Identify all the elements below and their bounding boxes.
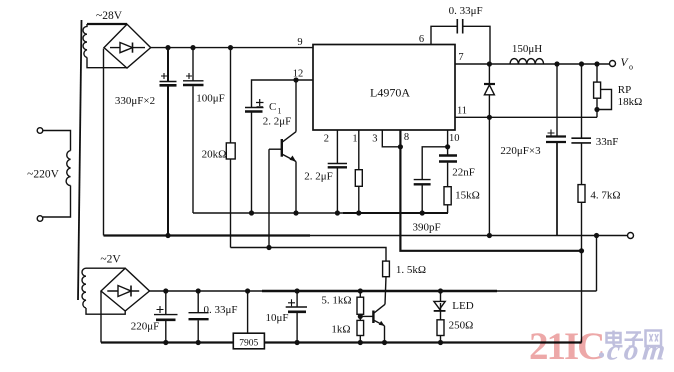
label pin 12 [293, 69, 304, 80]
wire power ground rail [104, 234, 628, 236]
label 2.2uF C1 [263, 116, 292, 128]
svg-text:C: C [269, 101, 276, 113]
svg-text:3: 3 [372, 134, 377, 145]
label pin 10 [449, 133, 460, 144]
transformer T1 secondary 2V winding [82, 268, 86, 308]
label 2.2uF pin2 [304, 171, 333, 183]
resistor pin1 [355, 130, 362, 213]
svg-text:0. 33μF: 0. 33μF [449, 5, 483, 17]
node junction pin1 res ground [356, 210, 361, 215]
label 4.7kOhm [590, 190, 620, 202]
label 150uH [512, 43, 542, 55]
label pin 6 [419, 34, 424, 45]
terminal Vo [610, 61, 616, 67]
wire base net A [231, 248, 387, 262]
node junction pin3 pin8 [398, 144, 403, 149]
label 10uF [265, 312, 288, 324]
node junction 330uF ground [165, 233, 170, 238]
node junction 220uF top [163, 288, 168, 293]
node junction 220uF bottom [163, 340, 168, 345]
diode LED [434, 291, 446, 320]
svg-text:4. 7kΩ: 4. 7kΩ [590, 190, 620, 202]
svg-text:~28V: ~28V [96, 10, 123, 22]
transformer T1 secondary 28V winding [83, 24, 87, 57]
svg-text:7905: 7905 [239, 339, 258, 349]
wire pin 8 column [400, 130, 581, 251]
node junction diode pin7 [487, 61, 492, 66]
svg-text:RP: RP [618, 84, 631, 96]
label 100uF [196, 93, 225, 105]
label 250Ohm [449, 320, 474, 332]
capacitor C 100uF [183, 48, 204, 213]
bridge rectifier D3 [101, 268, 150, 311]
wire LED positive rail [150, 290, 597, 292]
node junction 390pF ground [420, 210, 425, 215]
svg-text:~220V: ~220V [27, 169, 59, 181]
wire primary bottom [43, 186, 71, 218]
regulator U2 7905 [233, 333, 264, 349]
node junction Q1 base on net A [266, 245, 271, 250]
capacitor C 330uF x2 [160, 48, 177, 236]
node junction 250 bottom [438, 340, 443, 345]
transformer T1 primary winding [66, 151, 70, 186]
label ~220V [27, 169, 59, 181]
svg-text:390pF: 390pF [413, 222, 441, 234]
label 330uF x2 [115, 95, 155, 107]
svg-text:2. 2μF: 2. 2μF [263, 116, 292, 128]
label pin 11 [457, 106, 467, 117]
svg-text:33nF: 33nF [596, 136, 619, 148]
label pin 1 [352, 134, 357, 145]
svg-text:10: 10 [449, 133, 460, 144]
svg-text:22nF: 22nF [452, 167, 475, 179]
resistor 15k [444, 187, 451, 213]
node junction 10uF bottom [295, 340, 300, 345]
node junction Q1 emitter ground [293, 210, 298, 215]
label 1.5kOhm [396, 264, 426, 276]
wire 7905 input [247, 291, 249, 333]
svg-text:8: 8 [404, 132, 409, 143]
resistor 250 [437, 320, 444, 343]
svg-text:11: 11 [457, 106, 467, 117]
svg-text:5. 1kΩ: 5. 1kΩ [321, 295, 351, 307]
wire 28V winding top to bridge [87, 23, 127, 25]
svg-text:LED: LED [452, 300, 473, 312]
wire negative rail bottom left [100, 291, 102, 343]
op-amp U1 L4970A [313, 45, 455, 131]
resistor 20k [226, 48, 235, 248]
wire 2V top to bridge [86, 267, 125, 269]
svg-text:1kΩ: 1kΩ [331, 324, 350, 336]
terminal AC input bottom [37, 216, 43, 222]
svg-text:2. 2μF: 2. 2μF [304, 171, 333, 183]
svg-text:L4970A: L4970A [370, 86, 410, 100]
svg-text:7: 7 [458, 52, 463, 63]
label Vo [621, 57, 634, 72]
node junction 5.1k 1k base [358, 314, 363, 319]
label 22nF [452, 167, 475, 179]
wire pin 11 [455, 116, 597, 118]
wire primary top [43, 131, 71, 151]
node junction 100uF top [190, 45, 195, 50]
wire signal ground rail [193, 212, 448, 214]
svg-text:220μF×3: 220μF×3 [500, 145, 541, 157]
label 220uF x3 [500, 145, 541, 157]
label pin 3 [372, 134, 377, 145]
node junction C1 ground [249, 210, 254, 215]
svg-text:9: 9 [297, 37, 302, 48]
svg-text:150μH: 150μH [512, 43, 542, 55]
svg-text:220μF: 220μF [131, 321, 160, 333]
node junction pin12 collector [293, 77, 298, 82]
svg-text:1: 1 [278, 107, 282, 116]
label 15kOhm [455, 190, 480, 202]
node junction 7905 top [245, 288, 250, 293]
label pin 2 [324, 134, 329, 145]
capacitor 22nF [439, 130, 457, 187]
capacitor 220uF bottom [154, 291, 178, 343]
label 20kOhm [202, 149, 227, 161]
svg-text:18kΩ: 18kΩ [618, 96, 643, 108]
node junction 330uF top [165, 45, 170, 50]
node junction 0.33uF bottom [196, 340, 201, 345]
svg-text:0. 33μF: 0. 33μF [203, 304, 237, 316]
watermark 21IC logo [529, 325, 671, 368]
bridge rectifier D1 [104, 24, 151, 68]
terminal AC input top [37, 128, 43, 134]
svg-text:15kΩ: 15kΩ [455, 190, 480, 202]
svg-text:2: 2 [324, 134, 329, 145]
label LED [452, 300, 473, 312]
node junction 20k top [228, 45, 233, 50]
svg-text:1. 5kΩ: 1. 5kΩ [396, 264, 426, 276]
node junction LED top [438, 288, 443, 293]
label 1kOhm [331, 324, 350, 336]
wire bottom rail right [264, 341, 581, 343]
label 220uF bottom [131, 321, 160, 333]
node junction diode pin11 [487, 115, 492, 120]
resistor 5.1k [357, 291, 364, 320]
node junction diode ground rail [487, 233, 492, 238]
label ~2V [100, 254, 121, 266]
wire 2V bottom to bridge [86, 308, 125, 314]
node junction 10uF top [295, 288, 300, 293]
wire +28V rail [151, 47, 313, 49]
capacitor 10uF [286, 291, 307, 343]
node junction RP Vo [594, 61, 599, 66]
label 0.33uF bottom [203, 304, 237, 316]
node junction RP wiper [594, 107, 599, 112]
svg-text:~2V: ~2V [100, 254, 121, 266]
node junction pin2 cap ground [335, 210, 340, 215]
label 390pF [413, 222, 441, 234]
svg-text:330μF×2: 330μF×2 [115, 95, 155, 107]
resistor 1.5k [383, 261, 390, 304]
svg-text:100μF: 100μF [196, 93, 225, 105]
node junction 1k bottom [358, 340, 363, 345]
label 18kOhm [618, 96, 643, 108]
label pin 7 [458, 52, 463, 63]
potentiometer RP 18k [594, 64, 612, 117]
label C1 [269, 101, 282, 116]
label 0.33uF top [449, 5, 483, 17]
wire bridge negative down [103, 49, 105, 236]
node junction Q2 emitter [382, 340, 387, 345]
resistor 1k [357, 320, 364, 342]
wire 28V winding bottom to bridge [87, 57, 127, 67]
transistor Q1 [269, 80, 296, 213]
wire Q1 base down [268, 149, 270, 247]
node junction pin10 branch [445, 144, 450, 149]
wire bottom rail left [101, 341, 233, 343]
svg-text:12: 12 [293, 69, 304, 80]
label pin 9 [297, 37, 302, 48]
node junction 220uF Vo [554, 61, 559, 66]
svg-text:1: 1 [352, 134, 357, 145]
svg-text:20kΩ: 20kΩ [202, 149, 227, 161]
node junction 5.1k top [358, 288, 363, 293]
transistor Q2 [360, 304, 385, 342]
capacitor 0.33uF bottom [189, 291, 209, 343]
node junction 0.33uF top [196, 288, 201, 293]
node junction 4.7k net B [579, 248, 584, 253]
label ~28V [96, 10, 123, 22]
label 33nF [596, 136, 619, 148]
svg-text:6: 6 [419, 34, 424, 45]
svg-text:21IC: 21IC [529, 325, 603, 368]
wire pin 3 stub [382, 130, 400, 147]
terminal output return [628, 233, 634, 239]
inductor L1 150uH [510, 59, 544, 64]
capacitor 33nF [571, 64, 591, 185]
svg-text:10μF: 10μF [265, 312, 288, 324]
label RP [618, 84, 631, 96]
svg-text:250Ω: 250Ω [449, 320, 474, 332]
wire pin7 output to Vo [455, 63, 609, 65]
transformer core [78, 20, 82, 300]
capacitor 2.2uF pin2 [328, 130, 347, 213]
label 5.1kOhm [321, 295, 351, 307]
node junction 33nF Vo [579, 61, 584, 66]
svg-text:o: o [629, 63, 633, 72]
capacitor 0.33uF bootstrap [431, 19, 490, 64]
label pin 8 [404, 132, 409, 143]
resistor 4.7k [578, 185, 585, 343]
node junction right column ground [594, 233, 599, 238]
capacitor C1 2.2uF [245, 80, 313, 213]
diode D2 freewheel [484, 64, 495, 236]
capacitor 220uF x3 [546, 64, 566, 236]
wire right riser to ground rail [596, 236, 598, 292]
capacitor 390pF [414, 147, 448, 213]
